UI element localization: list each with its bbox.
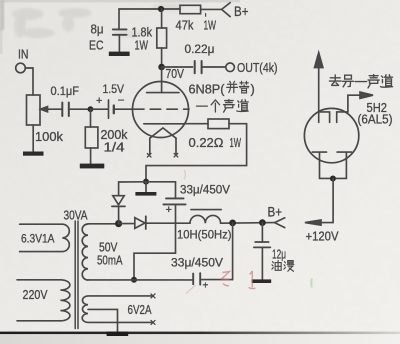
capacitor 8u EC plates xyxy=(113,28,127,30)
wire 6V2A center tap xyxy=(88,309,118,331)
wire battery to tube grid xyxy=(114,108,133,110)
red pencil annotations xyxy=(184,170,256,294)
svg-text:220V: 220V xyxy=(23,288,49,302)
svg-text:B+: B+ xyxy=(268,205,283,220)
svg-text:0.22Ω: 0.22Ω xyxy=(189,136,224,150)
svg-text:): ) xyxy=(251,82,255,97)
wire node to 200k xyxy=(90,109,92,127)
wire to +120V arrow xyxy=(321,179,334,223)
svg-text:12μ: 12μ xyxy=(272,248,286,262)
wire 1.8k to 70V node xyxy=(161,48,163,64)
capacitor 12u plates xyxy=(255,241,268,243)
diode D2 (series, pointing right) xyxy=(119,223,135,225)
wire ground node to C1 xyxy=(146,182,176,198)
svg-text:1/4: 1/4 xyxy=(104,141,125,155)
node rectifier junction xyxy=(115,220,122,227)
small green mark xyxy=(310,279,313,288)
ground (pot) xyxy=(23,152,44,156)
svg-text:10H(50Hz): 10H(50Hz) xyxy=(177,228,232,242)
wire left anode up with arrow xyxy=(318,67,320,123)
node 70V junction xyxy=(158,64,165,71)
heater pin legs xyxy=(150,138,176,153)
terminal B+ bottom fork xyxy=(275,218,285,228)
wire C1 down and over to AC lead xyxy=(134,205,176,280)
bottom band below line xyxy=(0,334,400,344)
tube V2 left anode xyxy=(319,112,330,123)
ground (cathode loop) xyxy=(135,192,156,196)
node cathode ground junction xyxy=(143,179,149,185)
tube V1 grid (dashed) xyxy=(134,108,190,110)
tube V2 cathodes xyxy=(312,152,326,178)
wire top rail left corner xyxy=(119,9,180,29)
label YouJin (oil immersed) xyxy=(272,260,281,270)
wire 70V node to 0.22u xyxy=(162,66,193,68)
node IN terminal circle xyxy=(16,63,26,73)
choke 10H(50Hz) xyxy=(190,215,221,223)
battery 1.5V long plate xyxy=(108,100,110,118)
svg-text:100k: 100k xyxy=(35,129,63,144)
tick under wire xyxy=(205,14,207,17)
svg-text:IN: IN xyxy=(18,48,29,62)
wire C2 riser xyxy=(232,223,234,280)
node top rail junction xyxy=(158,6,164,12)
capacitor C2 33u/450V plates xyxy=(192,274,194,285)
capacitor 0.1uF xyxy=(61,103,63,117)
left edge smudge xyxy=(0,0,4,30)
wire 70V node into tube plate xyxy=(161,67,163,93)
wire IN to pot xyxy=(25,68,33,95)
capacitor 12u stub xyxy=(261,223,263,242)
svg-text:OUT(4k): OUT(4k) xyxy=(237,61,278,75)
ground (200k) xyxy=(80,164,105,169)
svg-text:+: + xyxy=(96,95,102,107)
wire 0.22u to OUT xyxy=(203,66,226,68)
wire node to battery xyxy=(91,108,109,110)
svg-text:47k: 47k xyxy=(176,18,194,33)
terminal B+ top fork xyxy=(222,3,231,17)
svg-text:50V: 50V xyxy=(99,241,118,255)
svg-text:1W: 1W xyxy=(204,18,217,33)
bottom scan border line xyxy=(0,332,400,335)
node junction (grid RC) xyxy=(88,106,94,112)
transformer winding 6.3V1A xyxy=(20,224,70,251)
scan ghost marks top-left xyxy=(12,3,184,38)
diode D1 (shunt, pointing down) xyxy=(118,207,120,224)
heater pin x-marks xyxy=(147,153,178,157)
tube V1 cathode xyxy=(144,123,185,125)
svg-text:1.8k: 1.8k xyxy=(132,26,153,40)
potentiometer wiper arrow xyxy=(47,108,63,110)
tube V2 right anode xyxy=(337,95,361,122)
capacitor C1 33u/450V plates xyxy=(166,197,184,199)
svg-text:70V: 70V xyxy=(166,67,185,81)
wire 50V secondary top lead xyxy=(88,223,119,225)
svg-text:1W: 1W xyxy=(230,136,242,150)
svg-text:50mA: 50mA xyxy=(97,254,123,268)
ground (6V2A tap) xyxy=(107,332,129,336)
wire 12u to ground xyxy=(261,248,263,280)
tube V1 plate xyxy=(147,92,179,94)
svg-text:30VA: 30VA xyxy=(64,209,89,223)
svg-text:0.22μ: 0.22μ xyxy=(185,42,215,56)
top edge smudge xyxy=(0,0,240,2)
svg-text:0.1μF: 0.1μF xyxy=(51,84,80,98)
resistor 0.22ohm 1W xyxy=(208,119,229,129)
wire cathode link xyxy=(320,177,347,179)
svg-text:6V2A: 6V2A xyxy=(128,303,153,317)
transformer winding 220V xyxy=(17,280,70,321)
label QuLingYiShengDao (to other channel) xyxy=(329,75,341,86)
resistor 200k 1/4 xyxy=(85,127,98,148)
svg-text:8μ: 8μ xyxy=(91,23,104,37)
wire AC bottom line xyxy=(88,279,193,281)
wire rail to B+ xyxy=(221,222,275,225)
label YiGeShengDao (one channel) xyxy=(196,105,207,107)
svg-text:+: + xyxy=(203,281,209,292)
faint red squiggle xyxy=(184,170,186,180)
svg-text:6N8P(: 6N8P( xyxy=(189,82,226,97)
svg-text:33μ/450V: 33μ/450V xyxy=(171,256,224,270)
resistor 47k 1W xyxy=(180,5,201,13)
svg-text:−: − xyxy=(118,93,125,107)
capacitor 0.22u plates xyxy=(194,61,196,73)
wire pot to ground xyxy=(32,125,34,152)
svg-text:+: + xyxy=(166,204,172,216)
node 12u junction xyxy=(259,219,266,226)
ground (8u EC) xyxy=(109,52,130,56)
tube V1 heater xyxy=(150,128,176,138)
svg-text:(6AL5): (6AL5) xyxy=(358,113,393,127)
wire 47k to B+ xyxy=(201,8,222,10)
svg-text:1W: 1W xyxy=(135,39,149,53)
svg-text:EC: EC xyxy=(89,39,104,53)
wire rail to 1.8k xyxy=(161,9,163,28)
svg-text:6.3V1A: 6.3V1A xyxy=(21,234,55,246)
resistor 1.8k 1W xyxy=(157,28,167,48)
wire cathode loop xyxy=(146,124,247,182)
node AC bottom junction xyxy=(131,277,137,283)
svg-text:+120V: +120V xyxy=(306,230,340,244)
faint red diagonal xyxy=(186,285,196,294)
terminal OUT(4k) circle xyxy=(226,63,235,72)
choke core line xyxy=(191,209,221,211)
svg-text:33μ/450V: 33μ/450V xyxy=(180,183,231,197)
tube V2 6AL5 envelope xyxy=(304,108,358,162)
wire cathode out to 0.22ohm xyxy=(184,123,208,125)
winding terminal x-marks xyxy=(151,294,155,325)
red mark near C2 xyxy=(222,272,231,286)
ground (12u) xyxy=(252,279,272,283)
transformer winding 50V 50mA xyxy=(82,224,88,280)
transformer winding 6V2A xyxy=(82,296,151,323)
node cathode junction xyxy=(330,176,336,182)
wire cap to node A xyxy=(70,108,91,110)
wire C2 to riser xyxy=(201,279,233,281)
potentiometer 100k body xyxy=(27,95,41,125)
svg-text:B+: B+ xyxy=(234,4,249,19)
battery 1.5V short plate xyxy=(113,106,115,114)
transformer core xyxy=(75,221,78,329)
wire 200k to ground xyxy=(90,148,92,164)
node choke-C2 junction xyxy=(229,220,236,227)
wire 8u to ground xyxy=(118,35,120,52)
wire to ground xyxy=(145,182,147,192)
label BingGuan in 6N8P() xyxy=(227,81,238,92)
tube V1 6N8P envelope xyxy=(133,82,189,138)
red mark near 12u ground xyxy=(249,271,256,289)
